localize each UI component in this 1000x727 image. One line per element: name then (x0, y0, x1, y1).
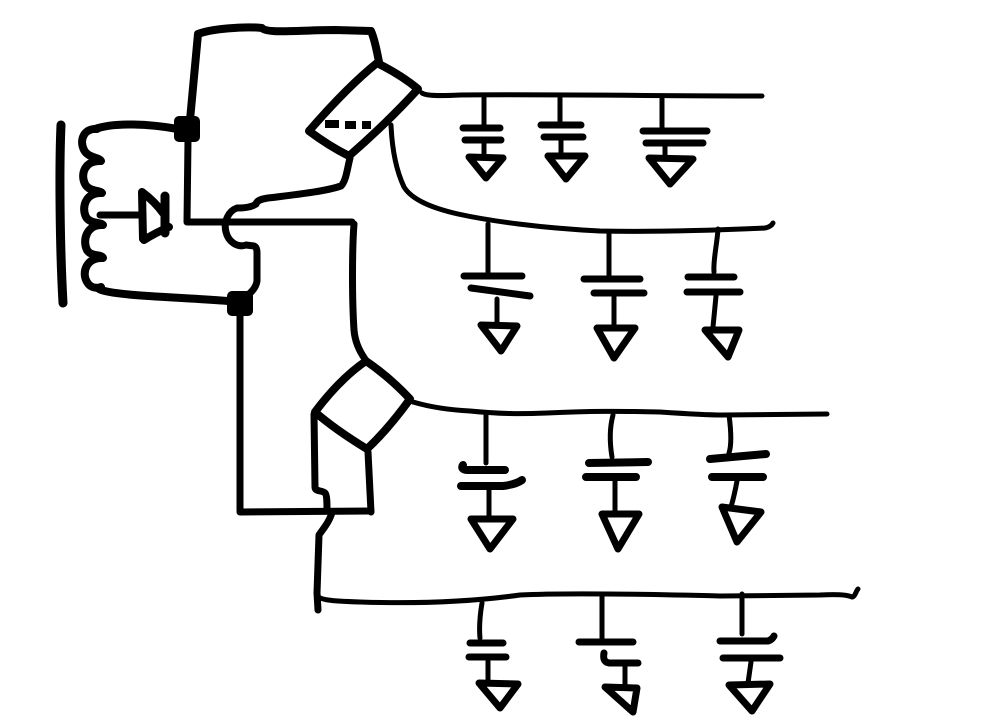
capacitor C12 plates (720, 636, 780, 658)
capacitor C12 lower lead (748, 662, 751, 683)
bottom rail net V4 (317, 589, 858, 603)
ground for C8 (602, 514, 639, 549)
core bar (transformer core) (60, 125, 63, 303)
diode D1 cathode bar (161, 196, 170, 233)
capacitor C3 plates (643, 131, 707, 143)
capacitor C8 lead (610, 415, 613, 457)
wire: node A horizontal toward FB2 feed (192, 219, 352, 226)
wire: node A up and over to ferrite bead FB1 (190, 27, 379, 120)
capacitor C6 plates (687, 277, 740, 292)
capacitor C10 lead (480, 603, 482, 638)
junction node A (solder blob) (174, 116, 200, 142)
capacitor C1 plates (463, 128, 501, 140)
ground for C6 (705, 330, 739, 357)
wire: FB2 left corner down (314, 414, 327, 511)
capacitor C6 lower lead (713, 296, 716, 327)
capacitor C5 lower lead (612, 297, 617, 325)
dashes inside FB1 (325, 124, 371, 125)
wire: coil bottom to node B (99, 289, 228, 301)
ferrite bead FB1 (diagonal box) (309, 63, 418, 156)
ground for C1 (469, 157, 503, 178)
wire: node A down (187, 140, 200, 222)
capacitor C4 lead (486, 224, 491, 272)
capacitor C7 plates (461, 465, 522, 486)
capacitor C2 plates (541, 125, 583, 137)
rail net V3 (413, 402, 827, 415)
capacitor C2 lower lead (559, 140, 564, 155)
rail net V2 (391, 125, 773, 231)
capacitor C10 plates (469, 643, 506, 657)
wire: coil top to node A (95, 124, 178, 129)
ground for C10 (479, 683, 518, 708)
capacitor C11 lead (600, 594, 605, 638)
diode D1 anode wire (100, 212, 139, 219)
capacitor C1 lower lead (482, 143, 487, 157)
capacitor C9 lead (729, 415, 731, 453)
wire: junction down to bottom rail (317, 512, 332, 610)
capacitor C11 plates (579, 642, 638, 663)
capacitor C12 lead (740, 594, 745, 634)
capacitor C8 plates (586, 462, 648, 477)
diode D1 (triangle) (142, 192, 169, 240)
capacitor C5 lead (607, 232, 612, 275)
wire: FB2 feed vertical (353, 224, 366, 359)
wire: node B down (237, 314, 244, 510)
capacitor C7 lower lead (487, 489, 492, 517)
rail net V1 (422, 93, 762, 96)
junction node B (solder blob) (227, 291, 253, 316)
ground for C2 (548, 156, 585, 179)
inductor winding L1 (hand-drawn coil) (82, 129, 103, 288)
ground for C4 (481, 325, 517, 351)
ground for C5 (597, 328, 635, 358)
capacitor C5 plates (584, 279, 644, 293)
hook loop wire into node B (225, 204, 257, 297)
ground for C9 (722, 507, 761, 542)
capacitor C4 plates (464, 276, 530, 296)
capacitor C6 lead (714, 229, 718, 272)
capacitor C3 lower lead (663, 146, 668, 157)
capacitor C1 lead (482, 98, 487, 125)
capacitor C4 lower lead (495, 299, 500, 323)
capacitor C2 lead (558, 98, 563, 122)
ground for C11 (605, 687, 637, 712)
capacitor C9 lower lead (731, 481, 737, 507)
ground for C3 (649, 158, 693, 184)
capacitor C7 lead (484, 415, 489, 463)
capacitor C10 lower lead (486, 661, 491, 682)
capacitor C9 plates (710, 454, 766, 477)
capacitor C11 lower lead (623, 666, 628, 688)
wire: FB2 bottom corner down (368, 452, 371, 512)
wire: FB1 bottom corner down-left to hook (256, 158, 350, 204)
capacitor C8 lower lead (613, 481, 618, 514)
wire: node B bottom horizontal (240, 511, 371, 512)
capacitor C3 lead (660, 98, 665, 128)
ferrite bead FB2 (diagonal box) (315, 361, 410, 449)
ground for C7 (471, 519, 513, 549)
ground for C12 (729, 684, 770, 711)
